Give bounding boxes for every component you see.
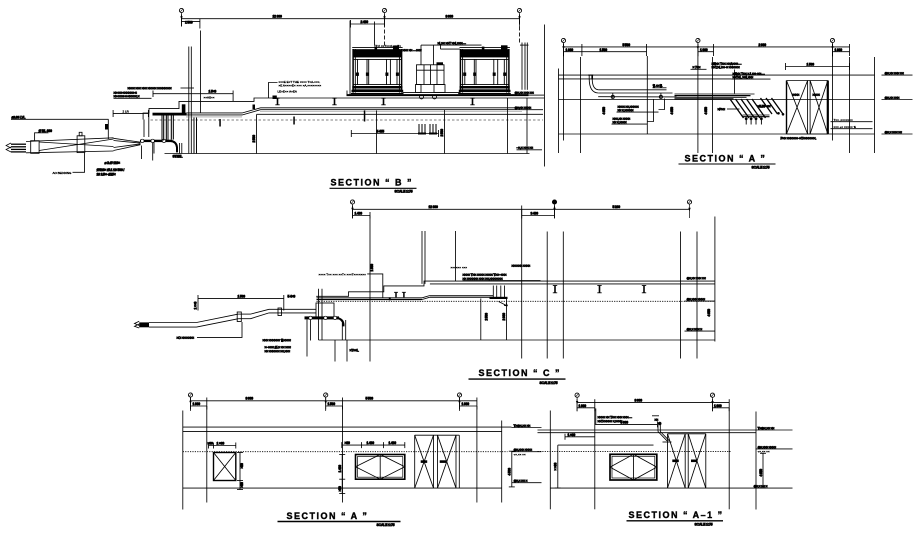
svg-text:4 650: 4 650	[707, 309, 711, 317]
pipe collar 1	[237, 312, 241, 322]
studs below step	[394, 292, 406, 297]
skylight leader line	[434, 44, 482, 46]
svg-text:×××××× ×××: ×××××× ×××	[451, 266, 468, 270]
long verticals	[182, 411, 184, 510]
svg-text:AO BEDDING: AO BEDDING	[53, 171, 73, 175]
svg-text:××××: ××××	[792, 93, 799, 97]
grid bubble 3	[517, 8, 521, 26]
bottom line	[183, 487, 502, 489]
level line 1	[559, 74, 875, 76]
svg-text:×× ×××××× ××.×××: ×× ×××××× ××.×××	[265, 349, 291, 353]
svg-text:SCALE 1:75: SCALE 1:75	[377, 523, 395, 527]
dashed level	[183, 451, 508, 453]
svg-text:××T××××× ×.××××: ××T××××× ×.××××	[598, 419, 623, 423]
skylight curb column	[417, 45, 445, 84]
svg-text:5 500: 5 500	[623, 43, 631, 47]
svg-text:2 LR: 2 LR	[123, 109, 130, 113]
svg-text:1 500: 1 500	[807, 63, 815, 67]
sub dim 1400	[353, 215, 371, 217]
box1 with X	[214, 453, 236, 481]
grid bubble 1	[179, 8, 183, 26]
svg-text:8 000: 8 000	[246, 397, 254, 401]
svg-text:×5.50−××: ×5.50−××	[758, 105, 771, 109]
horizontal pipe	[598, 92, 672, 94]
svg-text:××T.×L××−× ××××××: ××T.×L××−× ××××××	[712, 66, 740, 70]
duct elbow	[170, 141, 177, 153]
svg-text:2 000: 2 000	[759, 43, 767, 47]
svg-text:4 650: 4 650	[602, 107, 606, 115]
dim line	[353, 208, 690, 210]
svg-text:5 500: 5 500	[366, 397, 374, 401]
svg-text:×L×× ××T ××L×××―: ×L×× ××T ××L×××―	[438, 42, 467, 46]
duct end dots	[745, 117, 748, 120]
rain pipe verticals	[521, 43, 523, 90]
svg-text:×P××: ×P××	[718, 108, 726, 112]
svg-text:4 500: 4 500	[508, 468, 512, 476]
pit connector verticals	[161, 116, 163, 141]
svg-text:×00: ×00	[208, 442, 213, 446]
dim 1000 left	[565, 436, 595, 438]
right dim bracket	[762, 453, 764, 488]
svg-text:×E A××××E× ××× ×A.××××××××: ×E A××××E× ××× ×A.××××××××	[279, 84, 322, 88]
dim ticks	[181, 15, 183, 27]
trench wall left	[107, 119, 109, 139]
grid bubble 2	[324, 393, 328, 411]
pipe left cap	[6, 143, 26, 152]
duct thick bar	[305, 316, 340, 319]
dashed level	[538, 450, 731, 452]
grid bubble C3	[687, 200, 691, 218]
svg-text:×××× ××× ××× ××××× ××××××××: ×××× ××× ××× ××××× ××××××××	[128, 86, 172, 90]
grid bubble 1	[188, 393, 192, 411]
svg-text:10 2.5×−∅∅×: 10 2.5×−∅∅×	[97, 173, 116, 177]
svg-text:1 400: 1 400	[355, 212, 363, 216]
dim line 1500 wall	[153, 93, 233, 95]
svg-text:2 500: 2 500	[440, 129, 444, 137]
svg-text:1 000: 1 000	[579, 404, 587, 408]
pipe collar 2	[278, 308, 282, 316]
leader below verticals	[334, 340, 336, 362]
svg-text:×××× T×× ××× ××T× ×××T×××××××: ×××× T×× ××× ××T× ×××T×××××××	[319, 272, 367, 276]
svg-text:P×× ××××××−×T×××××××.: P×× ××××××−×T×××××××.	[781, 137, 817, 141]
svg-text:2 500: 2 500	[485, 313, 489, 321]
dim line	[191, 400, 477, 402]
corner dark mark	[253, 105, 256, 110]
svg-text:×00: ×00	[345, 441, 350, 445]
svg-text:5 455: 5 455	[377, 129, 385, 133]
dim extension vertical	[200, 31, 202, 113]
svg-text:⊕×.×× ××× ××: ⊕×.×× ××× ××	[687, 277, 706, 281]
sub dim 3400	[522, 215, 555, 217]
long verticals	[549, 411, 551, 510]
svg-text:××× ×××××× ⇅××××: ××× ×××××× ⇅××××	[263, 338, 291, 343]
pipe collar 2	[77, 136, 85, 153]
window W2	[458, 47, 511, 94]
window W1 left post	[346, 91, 348, 96]
svg-text:×50: ×50	[240, 463, 244, 468]
box2 dim left	[341, 455, 343, 494]
duct node circles	[141, 139, 144, 142]
svg-text:1 ×00: 1 ×00	[217, 442, 225, 446]
pipe elbow	[589, 79, 598, 94]
dim 3000	[595, 423, 658, 425]
dim line below slab	[351, 133, 438, 135]
pipe body tapered	[26, 138, 141, 153]
anchor bolt circles	[420, 95, 424, 99]
envelope box	[610, 454, 657, 480]
svg-text:1 500: 1 500	[370, 264, 374, 272]
grid bubble C1	[350, 200, 354, 218]
svg-text:× ×00: × ×00	[554, 463, 558, 471]
svg-text:××× ×× —×××: ××× ×× —×××	[403, 49, 422, 53]
grid verticals	[563, 44, 565, 141]
dashed level line	[317, 300, 715, 302]
pipe drop and bend	[657, 425, 659, 432]
trench top line	[558, 444, 654, 446]
svg-text:1 ××0: 1 ××0	[194, 302, 198, 310]
upper band lines	[261, 107, 522, 109]
pipe end cap	[139, 322, 149, 327]
inlet stub	[588, 75, 590, 79]
svg-text:1 ×00: 1 ×00	[568, 433, 576, 437]
svg-text:×50: ×50	[240, 482, 244, 487]
svg-text:1 5×0: 1 5×0	[209, 90, 217, 94]
svg-text:×O ×××××××: ×O ×××××××	[177, 336, 195, 340]
box2 envelope	[356, 455, 405, 480]
svg-text:LE×E×× A×EA: LE×E×× A×EA	[278, 90, 297, 94]
svg-text:1 000: 1 000	[193, 402, 201, 406]
sub dim brackets	[191, 405, 207, 407]
wall vertical 646	[646, 56, 648, 134]
grid bubble C2	[552, 200, 556, 218]
bundle B end dots	[777, 112, 780, 115]
grid bubble A1	[561, 38, 565, 56]
svg-text:⊕×.×× ××××: ⊕×.×× ××××	[515, 106, 532, 110]
svg-text:1 400: 1 400	[338, 465, 342, 473]
step profile left	[143, 98, 544, 120]
dowel ticks	[219, 119, 221, 127]
x-brace panels	[668, 434, 706, 488]
dim above xbrace	[786, 66, 850, 68]
svg-text:1 500: 1 500	[185, 21, 193, 25]
level line +0.00	[11, 118, 109, 120]
pipe run	[149, 309, 316, 327]
sub dim brackets	[564, 51, 647, 53]
curb pedestals	[416, 85, 422, 93]
duct bank striped band	[675, 94, 755, 99]
svg-text:2 500: 2 500	[252, 135, 256, 143]
pipe collar 1	[31, 141, 39, 154]
svg-text:3 000: 3 000	[621, 421, 629, 425]
diagonal duct run bundle B	[761, 98, 784, 114]
grid line verticals	[369, 216, 371, 362]
rebar ticks under band	[746, 120, 761, 125]
svg-text:1 500: 1 500	[328, 402, 336, 406]
step profile	[316, 281, 715, 296]
svg-text:SCALE 1:75: SCALE 1:75	[540, 381, 558, 385]
svg-text:4 650: 4 650	[704, 107, 708, 115]
upper deck dark band	[153, 113, 187, 116]
mast double vertical	[188, 47, 190, 154]
sub dims	[577, 407, 595, 409]
svg-text:1 400: 1 400	[389, 441, 397, 445]
lower band lines	[187, 112, 243, 114]
svg-text:2 400: 2 400	[361, 20, 369, 24]
grid bubble A2	[696, 38, 700, 56]
grid bubble 3	[457, 393, 461, 411]
dimension line top	[182, 18, 520, 20]
svg-text:5 200: 5 200	[613, 205, 621, 209]
svg-text:12 000: 12 000	[273, 15, 282, 19]
x-brace panels	[415, 435, 460, 488]
grid bubble 2	[382, 8, 386, 26]
svg-text:⊕×.×× ××× ××: ⊕×.×× ××× ××	[515, 91, 534, 95]
svg-text:8 000: 8 000	[635, 398, 643, 402]
svg-text:×50: ×50	[338, 486, 342, 491]
pit bottom line	[319, 339, 715, 341]
slab lines	[183, 426, 512, 428]
leader labels below pipe	[141, 146, 143, 160]
window W1	[351, 47, 404, 94]
mast single	[455, 231, 457, 281]
band ramp	[243, 108, 261, 113]
svg-text:∅110× ∅.1 10 500 /: ∅110× ∅.1 10 500 /	[97, 168, 125, 172]
lower striped band	[743, 115, 770, 117]
grid bubble A3	[830, 38, 834, 56]
svg-text:SECTION “ C ”: SECTION “ C ”	[479, 368, 562, 378]
service duct thick bar	[140, 140, 173, 142]
svg-text:+×.×× ××: +×.×× ××	[758, 450, 770, 454]
grid bubble 2	[710, 393, 714, 411]
dim 2LR	[113, 112, 148, 114]
svg-text:+×.×× ××: +×.×× ××	[514, 453, 526, 457]
svg-text:3 400: 3 400	[531, 212, 539, 216]
slab lines	[538, 429, 757, 431]
svg-text:×××××× ××××: ×××××× ××××	[512, 264, 531, 268]
svg-text:SCALE 1:75: SCALE 1:75	[752, 166, 770, 170]
svg-text:5 4×0: 5 4×0	[288, 295, 296, 299]
pit drop verticals	[179, 143, 181, 154]
I-studs under slab	[275, 98, 279, 105]
svg-text:1 500: 1 500	[600, 48, 608, 52]
long verticals below deck	[256, 115, 258, 154]
svg-text:1 500: 1 500	[238, 295, 246, 299]
svg-text:××××: ××××	[813, 93, 820, 97]
svg-text:SECTION “ A–1 ”: SECTION “ A–1 ”	[629, 510, 724, 520]
junction box	[316, 303, 334, 317]
svg-text:SECTION “ A ”: SECTION “ A ”	[287, 511, 369, 521]
box2 dim above	[342, 444, 405, 446]
wall line right	[544, 25, 546, 167]
svg-text:1 000: 1 000	[700, 48, 708, 52]
pit connector verticals	[161, 116, 163, 141]
svg-text:12 000: 12 000	[429, 205, 438, 209]
grid bubble 1	[575, 393, 579, 411]
slab thick top	[347, 94, 529, 96]
dim line	[564, 46, 850, 48]
box1 dim above	[209, 445, 236, 447]
svg-text:SCALE 1:75: SCALE 1:75	[395, 190, 413, 194]
box1 dim right	[239, 453, 241, 490]
grid line B3 dashed	[519, 15, 521, 45]
svg-text:STEEL: STEEL	[173, 155, 183, 159]
trench right wall	[148, 113, 150, 137]
floor band	[317, 297, 423, 299]
svg-text:SCALE 1:75: SCALE 1:75	[695, 522, 713, 526]
svg-text:1 000: 1 000	[714, 404, 722, 408]
svg-text:8 000: 8 000	[446, 15, 454, 19]
svg-text:1 000: 1 000	[462, 402, 470, 406]
I-studs	[553, 286, 557, 293]
svg-text:⌀ 2-∅ 110×: ⌀ 2-∅ 110×	[105, 161, 121, 165]
level line 2	[559, 99, 875, 101]
x-brace box	[787, 81, 828, 135]
diagonal duct run bundle A	[730, 99, 766, 118]
svg-text:1 000: 1 000	[566, 48, 574, 52]
svg-text:2 000: 2 000	[502, 313, 506, 321]
bottom line	[550, 487, 756, 489]
dashed level line	[151, 119, 544, 121]
right dim bracket	[511, 451, 513, 487]
svg-text:SECTION “ A ”: SECTION “ A ”	[685, 154, 767, 164]
ceiling line	[559, 78, 732, 80]
sub dim 2400	[351, 23, 385, 25]
vertical leader above window1	[374, 22, 376, 46]
dim line pipe	[198, 297, 284, 299]
level line 3	[559, 133, 875, 135]
svg-text:±0.00 LVL: ±0.00 LVL	[12, 116, 26, 120]
svg-text:4 650: 4 650	[670, 107, 674, 115]
rebar dowels	[419, 124, 436, 134]
left dim vertical	[557, 445, 559, 488]
svg-text:××AS××: ××AS××	[204, 96, 215, 100]
svg-text:1 000: 1 000	[835, 48, 843, 52]
svg-text:SECTION “ B ”: SECTION “ B ”	[331, 178, 414, 188]
svg-text:4 650: 4 650	[759, 469, 763, 477]
grid line B2 dashed	[384, 24, 386, 48]
mast pair	[421, 231, 423, 284]
duct elbow	[337, 318, 344, 327]
pipe joints	[611, 95, 614, 98]
beam pocket	[490, 286, 508, 307]
svg-text:×T××L: ×T××L	[350, 349, 359, 353]
svg-text:1 400: 1 400	[367, 441, 375, 445]
svg-text:××: ××	[655, 418, 659, 422]
pit bottom line	[165, 153, 530, 155]
dim line	[577, 401, 729, 403]
pit verticals	[480, 299, 482, 341]
